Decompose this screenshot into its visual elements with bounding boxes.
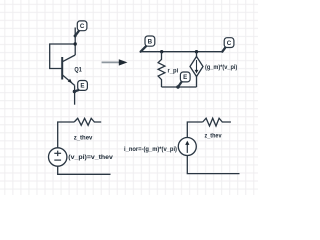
junction dot loop-collector: [74, 42, 77, 45]
voltage source (v_pi)=v_thev: [49, 148, 67, 166]
resistor z_thev (norton): [203, 118, 231, 126]
wire top (thevenin): [58, 122, 74, 148]
svg-text:E: E: [183, 74, 187, 81]
node B flag: [141, 36, 155, 52]
svg-text:r_pi: r_pi: [168, 68, 179, 75]
wire top (norton): [187, 122, 202, 138]
svg-text:i_nor=-(g_m)*(v_pi): i_nor=-(g_m)*(v_pi): [124, 146, 177, 153]
svg-text:Q1: Q1: [74, 66, 82, 73]
svg-text:z_thev: z_thev: [205, 133, 222, 140]
svg-text:E: E: [80, 83, 84, 90]
resistor z_thev (thevenin): [74, 118, 101, 125]
node E flag (hybrid-pi): [178, 72, 190, 87]
svg-text:B: B: [148, 38, 153, 45]
transform arrow: [102, 59, 128, 65]
wire bottom (norton): [187, 156, 239, 174]
resistor r_pi: [158, 52, 165, 87]
node C flag (top-left): [74, 21, 87, 38]
wire base-collector loop: [50, 44, 75, 69]
wire emitter: [74, 85, 76, 104]
transistor Q1: [62, 55, 75, 85]
svg-text:C: C: [227, 40, 232, 47]
svg-text:(g_m)*(v_pi): (g_m)*(v_pi): [205, 64, 237, 71]
junction dot E attach (hybrid-pi): [176, 85, 179, 88]
wire bottom (thevenin): [58, 166, 111, 174]
svg-text:C: C: [80, 23, 85, 30]
current source i_nor: [178, 138, 196, 156]
wire top (hybrid-pi): [141, 51, 223, 53]
dependent current source (g_m)*(v_pi): [190, 52, 203, 87]
wire bottom (hybrid-pi): [162, 86, 197, 88]
node C flag (hybrid-pi): [222, 38, 234, 52]
junction dot B-side: [160, 50, 163, 53]
svg-text:z_thev: z_thev: [74, 134, 93, 141]
svg-text:(v_pi)=v_thev: (v_pi)=v_thev: [68, 154, 113, 161]
junction dot E attach: [73, 90, 76, 93]
junction dot C-side: [195, 50, 198, 53]
wire collector (top-left): [74, 28, 76, 56]
node E flag (top-left): [74, 81, 87, 92]
